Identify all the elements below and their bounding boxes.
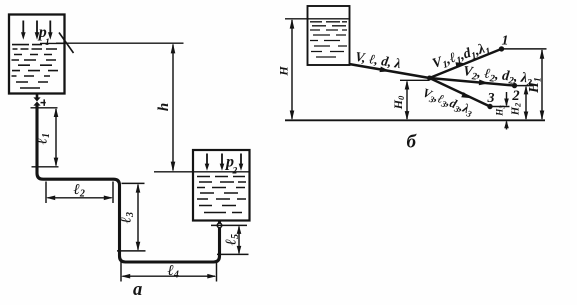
- node 1 level extension line: [504, 48, 547, 50]
- svg-text:h: h: [156, 103, 172, 111]
- main pipe V,l,d,lambda: [349, 64, 430, 78]
- svg-text:1: 1: [502, 33, 509, 48]
- dimension l2: extension lines: [46, 182, 113, 204]
- pipe run l1-l2-l3-l4-l5: [37, 106, 220, 263]
- dimension h: arrow line: [172, 45, 174, 171]
- svg-text:2: 2: [232, 167, 238, 177]
- dimension l1: extension lines: [31, 108, 59, 167]
- svg-text:2: 2: [511, 88, 519, 104]
- tank T3 water surface line + left extension for H: [285, 18, 349, 20]
- dimension l5: arrow line: [238, 227, 240, 254]
- branch pipe 2: [430, 78, 515, 86]
- node 3 level extension line: [493, 106, 510, 108]
- tank T1 outline: [9, 15, 65, 94]
- dimension l5: extension lines: [211, 225, 249, 254]
- svg-text:1: 1: [45, 38, 50, 48]
- svg-text:а: а: [133, 280, 142, 300]
- dimension l4: extension lines: [121, 262, 217, 282]
- dimension l3: arrow line: [137, 185, 139, 250]
- tank T2 water surface line: [193, 171, 250, 173]
- valve circle at tank T2 outlet: [217, 223, 222, 228]
- flow arrowhead on main pipe: [380, 67, 391, 73]
- dimension l3: extension lines: [117, 183, 146, 251]
- svg-text:H: H: [277, 66, 291, 77]
- dimension H: arrow line: [291, 20, 293, 119]
- dimension h: bottom extension at T2 water level: [154, 171, 193, 173]
- valve V1 handle: [41, 99, 46, 106]
- end node 1: [499, 46, 504, 51]
- junction node: [427, 76, 432, 81]
- ground baseline: [285, 119, 545, 121]
- branch pipe 1: [430, 49, 502, 78]
- flow arrowhead on branch 1: [456, 62, 467, 68]
- valve V1 below tank T1: stub: [36, 94, 39, 99]
- dimension l2: arrow line: [48, 197, 112, 199]
- svg-text:3: 3: [487, 91, 495, 106]
- dimension l1: arrow line: [55, 109, 57, 166]
- flow arrowhead on branch 2: [479, 80, 489, 86]
- tank T2 outline: [193, 150, 250, 221]
- valve V1 bowtie: [33, 97, 40, 105]
- tank T1 water surface line: [40, 42, 64, 44]
- pipe stub into tank T2: [218, 221, 221, 224]
- tank T1 water hatching: [12, 45, 59, 88]
- end node 2: [512, 83, 517, 88]
- dimension H1: arrow line: [541, 50, 543, 119]
- svg-text:б: б: [407, 132, 418, 153]
- free-surface slash tick at tank T1 right edge: [59, 33, 74, 54]
- flow arrowhead on branch 3: [461, 92, 471, 98]
- datum line from T1 surface (top reference for h): [56, 42, 184, 44]
- dimension H0: arrow line: [406, 82, 408, 120]
- branch pipe 3: [430, 78, 491, 107]
- pressure arrows p1 (three down arrows): [23, 21, 50, 34]
- tank T2 water hatching: [197, 177, 246, 213]
- pressure arrows p2 (three down arrows): [207, 154, 241, 166]
- node 2 level extension line: [517, 85, 534, 87]
- dimension H2: arrow line: [525, 87, 527, 119]
- dimension l4: arrow line: [123, 275, 216, 277]
- tank T3 outline: [308, 6, 350, 65]
- dimension H3: outside arrows (small span): [506, 92, 508, 130]
- end node 3: [487, 104, 492, 109]
- tank T3 water hatching: [310, 22, 347, 57]
- dimension H0: top extension from junction: [400, 79, 430, 81]
